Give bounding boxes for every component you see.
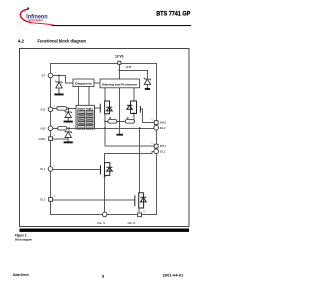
svg-text:OL 2: OL 2 <box>128 221 136 225</box>
svg-text:IS 1: IS 1 <box>40 167 46 171</box>
svg-text:R: R <box>109 116 111 120</box>
svg-text:2001-04-01: 2001-04-01 <box>163 273 184 277</box>
svg-text:ST: ST <box>41 74 45 78</box>
svg-text:3: 3 <box>54 125 55 127</box>
svg-text:9: 9 <box>152 143 153 145</box>
svg-text:Biasing and Protection: Biasing and Protection <box>102 82 137 86</box>
svg-text:Data Sheet: Data Sheet <box>13 273 29 277</box>
svg-text:8: 8 <box>152 119 153 121</box>
svg-text:IN2: IN2 <box>41 126 46 130</box>
svg-text:8: 8 <box>102 274 105 279</box>
svg-text:GND: GND <box>39 137 47 141</box>
svg-text:5: 5 <box>54 166 55 168</box>
svg-text:IN1: IN1 <box>41 107 46 111</box>
svg-text:BTS 7741 GP: BTS 7741 GP <box>156 10 190 17</box>
svg-text:OL 1: OL 1 <box>97 221 105 225</box>
svg-text:10: 10 <box>143 211 145 213</box>
svg-text:R: R <box>127 116 129 120</box>
svg-text:4.2: 4.2 <box>18 39 25 44</box>
svg-text:DL2: DL2 <box>160 126 166 130</box>
svg-text:6: 6 <box>54 196 55 198</box>
svg-text:9,17: 9,17 <box>126 65 132 69</box>
svg-text:1: 1 <box>55 73 56 75</box>
svg-text:Diagnosis: Diagnosis <box>75 82 92 86</box>
svg-text:DH1: DH1 <box>160 144 166 148</box>
svg-text:Block diagram: Block diagram <box>15 237 32 241</box>
svg-text:IS 2: IS 2 <box>40 198 46 202</box>
svg-text:DL1: DL1 <box>160 149 166 153</box>
svg-text:DH2: DH2 <box>160 121 166 125</box>
svg-text:2: 2 <box>54 106 55 108</box>
svg-text:7: 7 <box>109 211 110 213</box>
svg-text:Functional block diagram: Functional block diagram <box>38 39 87 44</box>
svg-text:13 VS: 13 VS <box>115 54 123 58</box>
svg-text:technologies: technologies <box>28 18 43 22</box>
svg-text:Input logic: Input logic <box>77 106 93 110</box>
svg-text:4: 4 <box>54 135 55 137</box>
